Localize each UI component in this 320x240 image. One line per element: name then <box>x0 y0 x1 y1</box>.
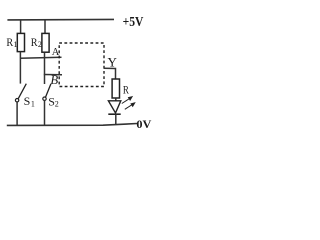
LED light arrow 1 <box>122 97 132 104</box>
0V ground rail <box>7 124 137 126</box>
svg-text:R: R <box>6 37 13 49</box>
switch S2 contact circle <box>43 97 46 100</box>
svg-text:2: 2 <box>55 100 59 109</box>
LED light arrow 2 <box>125 103 135 109</box>
wire node B to box <box>44 74 62 76</box>
svg-text:1: 1 <box>14 40 18 49</box>
switch S2 lever <box>46 84 51 97</box>
resistor R2 <box>42 33 49 52</box>
wire S2 to rail <box>44 100 46 125</box>
switch S1 lever <box>18 84 26 99</box>
wire node A to box <box>20 57 62 58</box>
svg-text:R: R <box>31 37 38 49</box>
svg-text:S: S <box>24 94 31 108</box>
wire rail to R1 <box>20 20 22 34</box>
LED cathode bar <box>108 113 120 115</box>
wire R to LED <box>115 98 117 101</box>
wire R2 to switch S2 <box>44 52 46 84</box>
resistor R <box>112 79 119 98</box>
wire S1 to rail <box>16 102 18 125</box>
svg-text:1: 1 <box>31 100 35 109</box>
svg-text:R: R <box>123 85 129 97</box>
wire LED to ground rail <box>115 114 117 124</box>
svg-text:0V: 0V <box>136 117 151 131</box>
resistor R1 <box>17 33 24 51</box>
wire rail to R2 <box>44 20 46 34</box>
svg-text:2: 2 <box>38 40 42 49</box>
logic-gate dashed box <box>59 43 104 87</box>
svg-text:B: B <box>50 72 58 87</box>
output Y wire <box>104 68 116 79</box>
LED D1 triangle <box>108 101 120 113</box>
wire R1 to switch S1 <box>19 52 21 84</box>
svg-text:+5V: +5V <box>123 14 144 29</box>
switch S1 contact circle <box>15 99 18 102</box>
svg-text:Y: Y <box>108 54 118 69</box>
+5V supply rail <box>7 18 114 21</box>
